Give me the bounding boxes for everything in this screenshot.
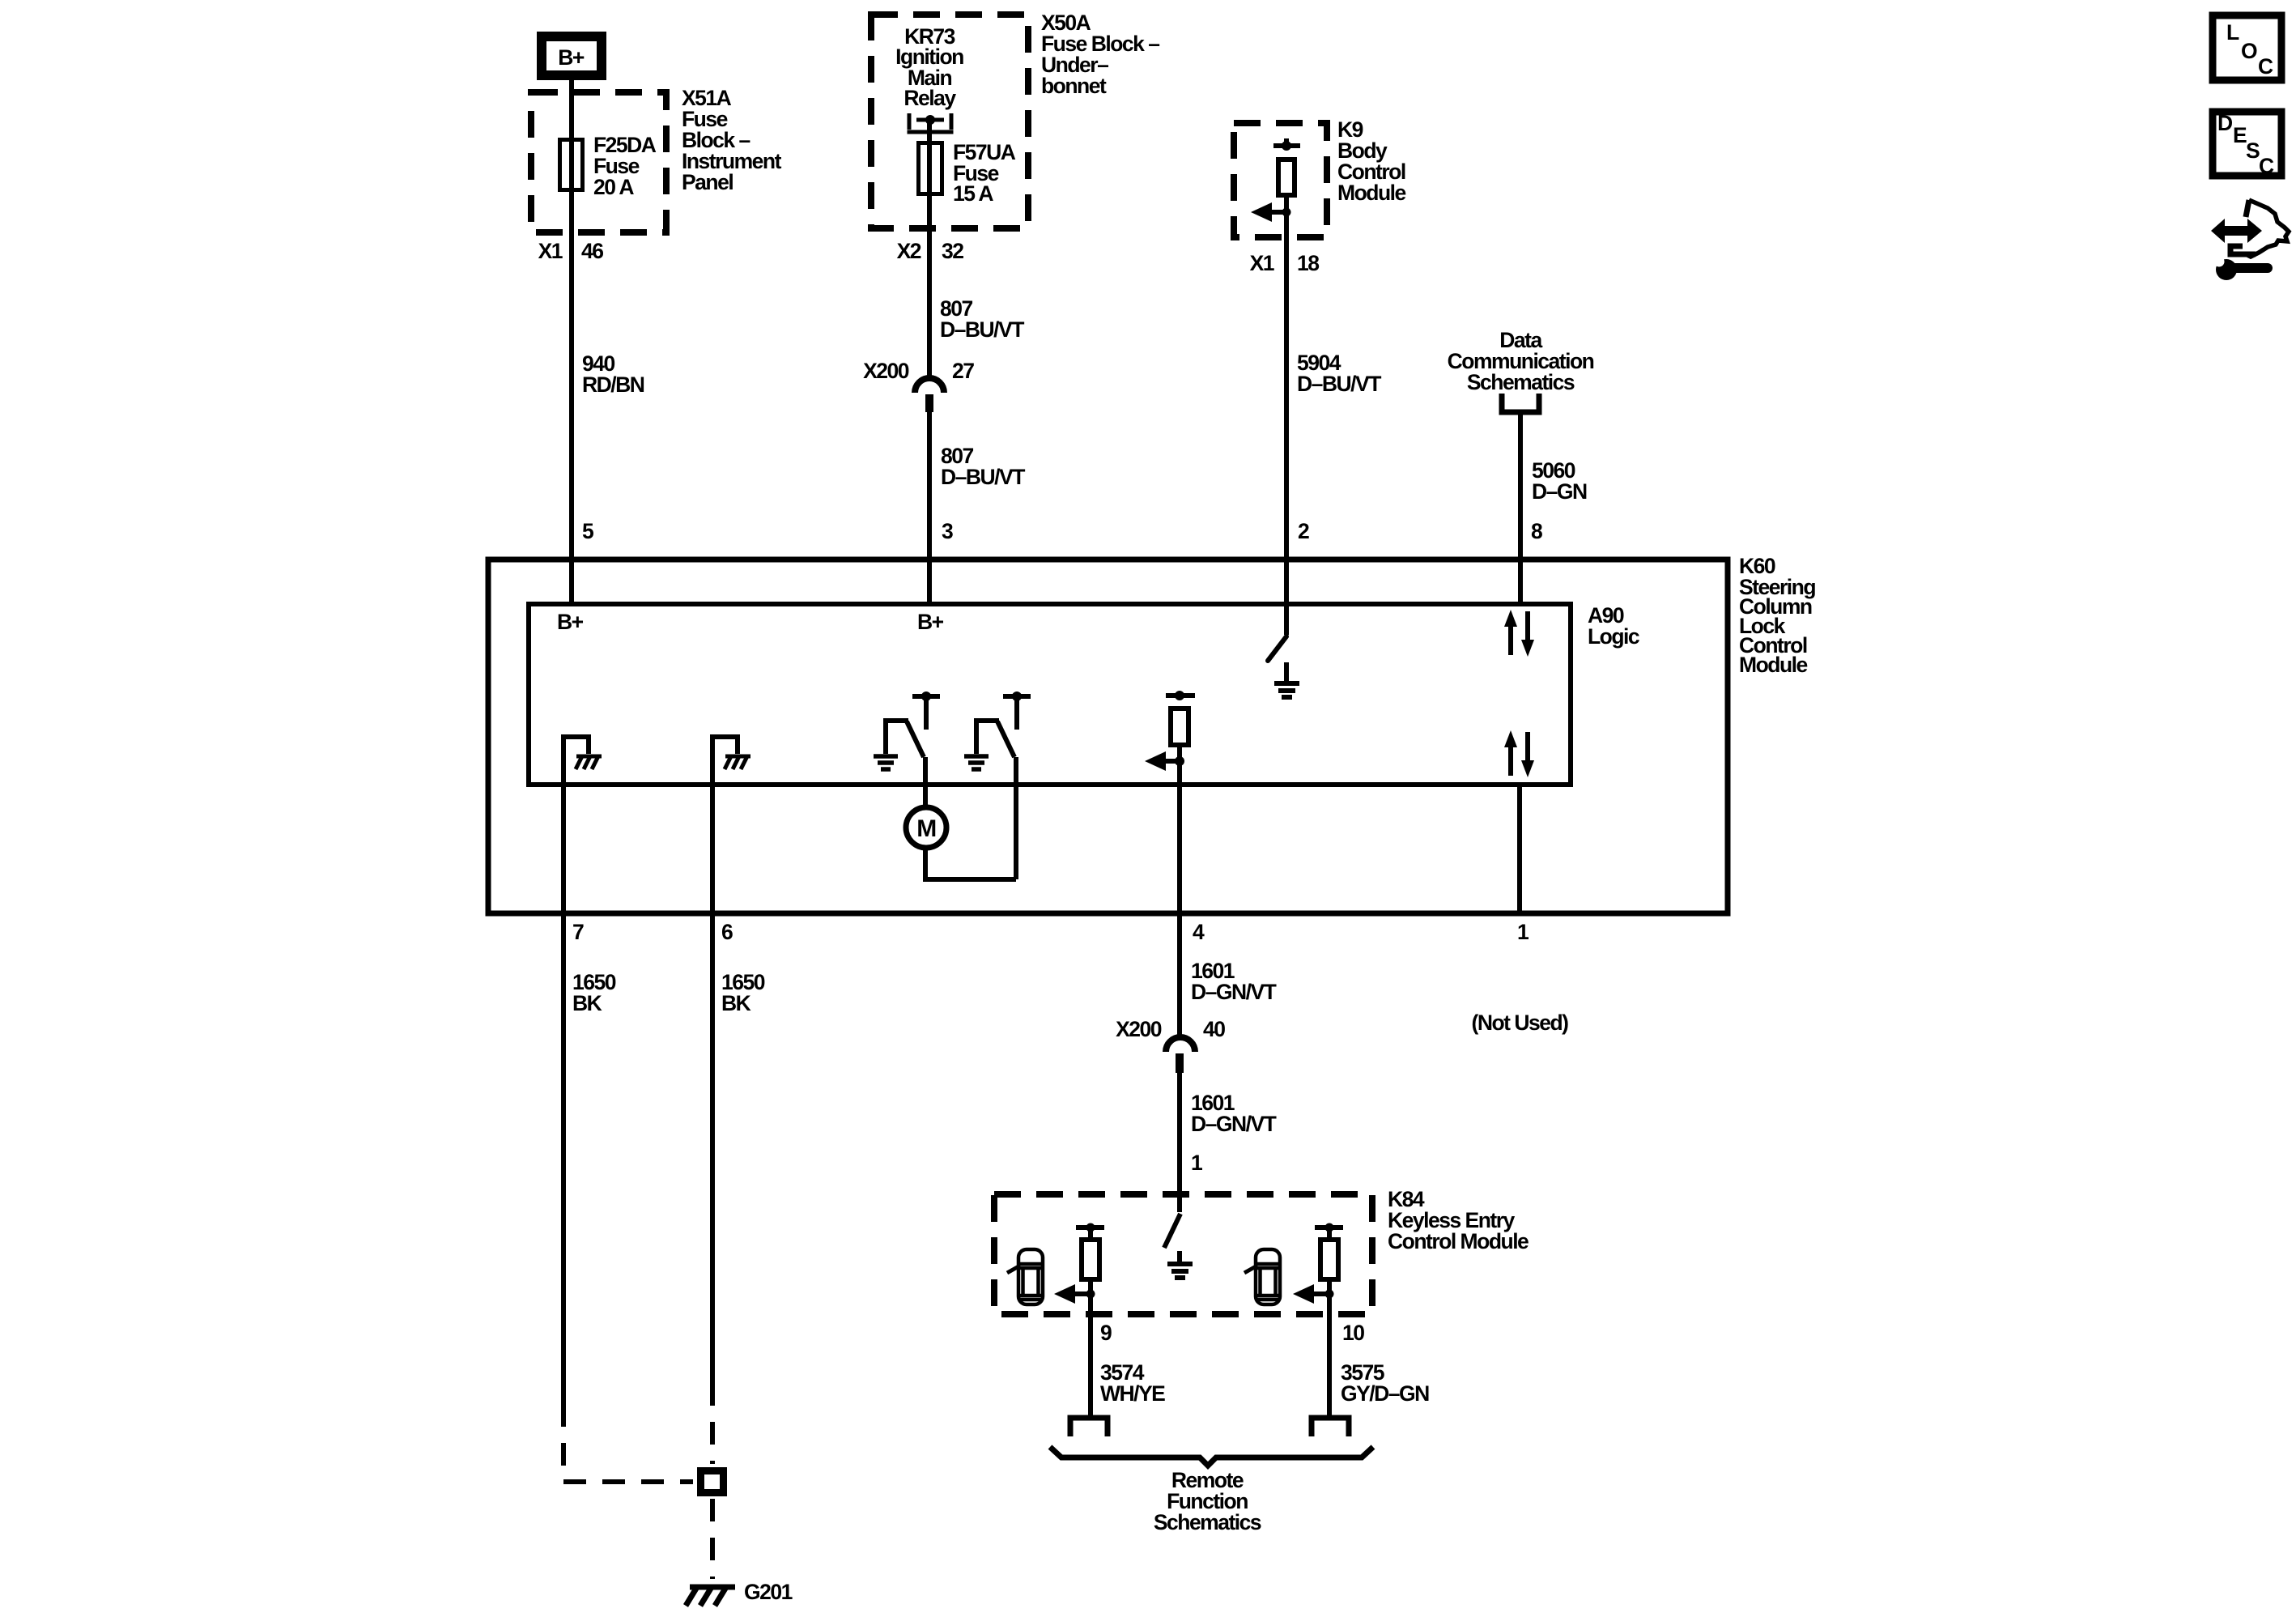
switch 1 fixed contact (bar, dot and stub) [912, 691, 940, 730]
label K84 Keyless Entry Control Module [1388, 1187, 1529, 1253]
serial data arrows (lower pair) [1504, 730, 1534, 777]
svg-text:BK: BK [572, 991, 602, 1015]
svg-text:D–BU/VT: D–BU/VT [940, 317, 1024, 342]
svg-text:GY/D–GN: GY/D–GN [1341, 1381, 1429, 1406]
off-page reference bracket pin 9 [1070, 1418, 1108, 1436]
battery positive terminal B+ [542, 36, 602, 75]
svg-text:40: 40 [1203, 1017, 1225, 1041]
car icon (lock function, left) [1007, 1249, 1043, 1304]
fuse F25DA [560, 140, 583, 190]
wire label 5060 D-GN [1532, 458, 1587, 504]
svg-text:D–BU/VT: D–BU/VT [941, 465, 1025, 489]
in-line connector X200 pin 40 [1116, 1017, 1225, 1073]
motor M (steering column lock actuator) [906, 807, 946, 848]
internal ground return for pin 7 (bent wire with chassis hatch) [563, 737, 602, 785]
svg-text:C: C [2258, 54, 2273, 79]
off-page reference bracket for data communication [1502, 394, 1539, 412]
svg-text:Logic: Logic [1588, 624, 1639, 649]
wire label 1650 BK (pin 6) [721, 970, 765, 1015]
car icon (lock function, right) [1244, 1249, 1280, 1304]
svg-text:B+: B+ [557, 610, 584, 634]
svg-text:bonnet: bonnet [1041, 74, 1107, 98]
svg-text:X1: X1 [538, 239, 563, 263]
relay KR73 contact symbol [908, 113, 954, 132]
K9 internal output arrow [1251, 195, 1291, 222]
wire: K60 pin 6 ground lead, circuit 1650 BK [710, 913, 715, 1383]
svg-text:BK: BK [721, 991, 751, 1015]
svg-text:B+: B+ [558, 45, 585, 70]
svg-text:D: D [2217, 111, 2233, 135]
label Remote Function Schematics [1154, 1468, 1261, 1534]
svg-text:O: O [2241, 39, 2257, 63]
K84 switch earth ground [1167, 1251, 1193, 1278]
wire: circuit 807 to K60 pin 3 [927, 412, 932, 604]
serial data arrows (upper pair) [1504, 610, 1534, 657]
wire: switch 2 to motor return loop [1014, 757, 1018, 879]
switch 2 fixed contact (bar, dot and stub) [1003, 691, 1031, 730]
svg-text:L: L [2226, 20, 2239, 45]
lock actuator driver 1: supply contact (bar and dot) [1076, 1223, 1104, 1240]
wire label 807 D-BU/VT (below X200) [941, 444, 1025, 489]
svg-text:D–BU/VT: D–BU/VT [1297, 372, 1381, 396]
label K60 Steering Column Lock Control Module [1739, 554, 1815, 677]
svg-text:46: 46 [581, 239, 603, 263]
in-line connector X200 pin 27 [863, 359, 974, 412]
connector X2 pin 32 labels [897, 239, 964, 263]
off-page reference bracket pin 10 [1312, 1418, 1349, 1436]
svg-text:6: 6 [721, 920, 733, 944]
K84 input switch blade [1164, 1194, 1180, 1248]
lock actuator driver 2: output arrow and junction [1293, 1279, 1334, 1304]
svg-text:RD/BN: RD/BN [582, 372, 644, 397]
svg-text:D–GN/VT: D–GN/VT [1191, 1112, 1277, 1136]
pin 4 driver resistor [1171, 709, 1188, 745]
svg-text:D–GN: D–GN [1532, 479, 1587, 504]
module K60 Steering Column Lock Control Module outline [488, 560, 1728, 913]
pin 4 driver supply contact (bar and dot) [1166, 691, 1195, 700]
svg-text:27: 27 [952, 359, 974, 383]
wire label 3575 GY/D-GN [1341, 1360, 1429, 1406]
svg-text:B+: B+ [917, 610, 944, 634]
brace grouping remote function outputs [1050, 1447, 1373, 1466]
svg-text:3: 3 [942, 519, 953, 543]
internal ground return for pin 6 (bent wire with chassis hatch) [712, 737, 750, 785]
wire label 3574 WH/YE [1100, 1360, 1165, 1406]
wire: K84 pin 9 output [1088, 1294, 1093, 1416]
label X51A Fuse Block - Instrument Panel [682, 86, 782, 194]
wire label 1601 D-GN/VT (lower) [1191, 1091, 1277, 1136]
wire label 5904 D-BU/VT [1297, 351, 1381, 396]
lock actuator driver 2: supply contact (bar and dot) [1315, 1223, 1343, 1240]
svg-text:7: 7 [572, 920, 584, 944]
svg-text:9: 9 [1100, 1321, 1112, 1345]
svg-text:1: 1 [1517, 920, 1529, 944]
dashed wire: pin 6 lead to splice [710, 1383, 715, 1464]
svg-text:2: 2 [1298, 519, 1309, 543]
svg-text:D–GN/VT: D–GN/VT [1191, 980, 1277, 1004]
wire label 940 RD/BN [582, 351, 644, 397]
dashed wire: pin 7 lead to splice [563, 1404, 693, 1482]
wire label 807 D-BU/VT (above X200) [940, 296, 1024, 342]
label X50A Fuse Block - Under-bonnet [1041, 11, 1159, 98]
wire: switch 1 to motor [923, 757, 928, 810]
svg-text:10: 10 [1342, 1321, 1364, 1345]
svg-text:20 A: 20 A [593, 175, 634, 199]
wire: B+ feed, circuit 940, down to K60 pin 5 [569, 80, 574, 604]
svg-text:Schematics: Schematics [1467, 370, 1575, 394]
module K84 Keyless Entry Control Module dashed outline [994, 1194, 1372, 1314]
svg-text:Module: Module [1739, 653, 1807, 677]
wire: A90 pin 4 output inside K60 [1177, 761, 1182, 913]
svg-text:5: 5 [582, 519, 593, 543]
label F25DA Fuse 20 A [593, 133, 657, 199]
splice block (square) [701, 1471, 724, 1493]
svg-text:Relay: Relay [904, 86, 956, 110]
fuse F57UA [919, 143, 942, 194]
K60 pin 1 number (Not Used) [1472, 920, 1569, 1035]
label KR73 Ignition Main Relay [895, 24, 963, 110]
switch 2 blade [997, 721, 1014, 757]
wire: K60 pin 7 ground lead, circuit 1650 BK [561, 913, 566, 1404]
wire: circuit 5060 to K60 pin 8 [1518, 412, 1523, 604]
wire: relay to fuse F57UA [927, 120, 932, 377]
ground G201 chassis symbol [686, 1580, 793, 1606]
pin 2 switch earth ground [1274, 662, 1299, 697]
svg-text:G201: G201 [744, 1580, 793, 1604]
pin 2 input switch blade [1268, 604, 1286, 661]
wire: K9 pin 18 output, circuit 5904, to K60 pin 2 [1284, 212, 1289, 604]
switch 1 ground leg (L-wire with IEC earth) [874, 721, 908, 769]
switch 2 ground leg (L-wire with IEC earth) [964, 721, 999, 769]
svg-text:15 A: 15 A [953, 181, 993, 206]
K9 internal supply contact (bar and dot) [1273, 138, 1300, 151]
svg-text:WH/YE: WH/YE [1100, 1381, 1165, 1406]
connector-view icon (double arrow, housing and wrench) [2211, 200, 2289, 280]
svg-text:(Not Used): (Not Used) [1472, 1011, 1569, 1035]
K9 internal resistor [1278, 160, 1295, 195]
svg-text:4: 4 [1193, 920, 1205, 944]
wire: K60 pin 4 output, circuit 1601 [1177, 913, 1182, 1036]
wire: A90 pin 6 ground lead inside K60 [710, 785, 715, 913]
label Data Communication Schematics [1448, 328, 1594, 394]
svg-text:Panel: Panel [682, 170, 733, 194]
body control module K9 dashed outline [1234, 123, 1327, 237]
svg-text:X200: X200 [863, 359, 909, 383]
svg-text:18: 18 [1297, 251, 1319, 275]
svg-text:X1: X1 [1250, 251, 1274, 275]
logic block A90 outline [529, 604, 1571, 785]
svg-text:X200: X200 [1116, 1017, 1162, 1041]
label A90 Logic [1588, 603, 1639, 649]
svg-text:S: S [2246, 138, 2260, 163]
wire: pin 1 stub from A90 to K60 edge (not used) [1517, 785, 1522, 913]
dashed wire: splice to ground G201 [710, 1499, 715, 1579]
pin 4 output arrow and junction [1145, 745, 1184, 771]
label F57UA Fuse 15 A [953, 140, 1016, 206]
wire: A90 pin 7 ground lead inside K60 [561, 785, 566, 913]
svg-text:Module: Module [1337, 181, 1405, 205]
fuse block X51A dashed outline [531, 92, 666, 232]
LOC legend box [2213, 15, 2281, 80]
wire: K84 pin 10 output [1327, 1294, 1332, 1416]
svg-text:M: M [916, 815, 936, 842]
svg-text:X2: X2 [897, 239, 921, 263]
DESC legend box [2213, 111, 2281, 178]
lock actuator driver 1: resistor [1082, 1240, 1099, 1279]
svg-text:E: E [2233, 123, 2247, 147]
label K9 Body Control Module [1337, 117, 1405, 205]
wire label 1601 D-GN/VT (upper) [1191, 959, 1277, 1004]
svg-text:8: 8 [1531, 519, 1542, 543]
switch 1 blade [907, 721, 924, 757]
svg-text:Schematics: Schematics [1154, 1510, 1261, 1534]
wire label 1650 BK (pin 7) [572, 970, 616, 1015]
lock actuator driver 1: output arrow and junction [1054, 1279, 1095, 1304]
svg-text:Control Module: Control Module [1388, 1229, 1529, 1253]
svg-text:C: C [2259, 154, 2274, 178]
wire: motor return loop bottom [925, 847, 1016, 879]
fuse block X50A dashed outline [871, 15, 1028, 228]
wire: circuit 1601 to K84 pin 1 [1177, 1073, 1182, 1194]
connector X1 pin 18 labels [1250, 251, 1320, 275]
svg-text:32: 32 [942, 239, 963, 263]
svg-text:1: 1 [1191, 1151, 1202, 1175]
lock actuator driver 2: resistor [1320, 1240, 1338, 1279]
connector X1 pin 46 labels [538, 239, 604, 263]
